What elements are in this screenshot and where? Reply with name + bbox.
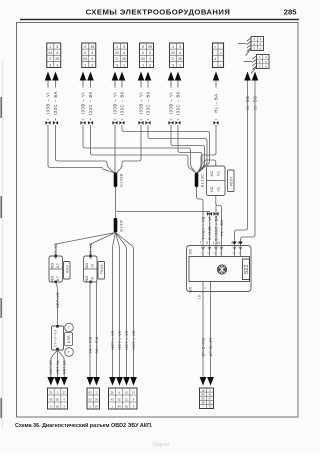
svg-text:27: 27 — [63, 391, 66, 395]
svg-text:A7: A7 — [56, 276, 60, 281]
svg-text:0: 0 — [142, 51, 144, 55]
svg-text:HE7 – VE: HE7 – VE — [110, 330, 115, 350]
svg-text:I33C – BA: I33C – BA — [119, 91, 124, 115]
svg-text:E-I33B – VI: E-I33B – VI — [208, 216, 212, 239]
svg-text:СХЕМЫ ЭЛЕКТРООБОРУДОВАНИЯ: СХЕМЫ ЭЛЕКТРООБОРУДОВАНИЯ — [86, 8, 231, 17]
svg-text:4: 4 — [56, 51, 58, 55]
svg-text:4: 4 — [149, 57, 151, 61]
svg-text:15: 15 — [216, 241, 220, 245]
svg-text:1: 1 — [172, 45, 174, 49]
svg-text:21: 21 — [125, 398, 128, 402]
svg-text:I33C – BA: I33C – BA — [88, 91, 93, 115]
svg-text:ND: ND — [51, 276, 55, 282]
svg-text:1: 1 — [142, 63, 144, 67]
svg-text:ND: ND — [51, 263, 55, 269]
svg-text:Z: Z — [214, 57, 216, 61]
svg-text:4: 4 — [123, 51, 125, 55]
svg-text:CY–IT–CY: CY–IT–CY — [54, 329, 58, 347]
svg-text:T-HE7 – VE: T-HE7 – VE — [201, 216, 205, 240]
svg-text:55: 55 — [56, 398, 59, 402]
svg-text:29: 29 — [90, 45, 94, 49]
svg-text:ND: ND — [85, 263, 89, 269]
svg-text:04: 04 — [141, 57, 145, 61]
svg-text:94: 94 — [118, 405, 121, 409]
svg-text:ND: ND — [85, 276, 89, 282]
svg-text:HE7 – VE: HE7 – VE — [131, 330, 136, 350]
svg-text:AF-I0–JR: AF-I0–JR — [208, 338, 213, 357]
svg-text:43: 43 — [111, 398, 114, 402]
svg-text:1: 1 — [213, 241, 215, 245]
svg-text:2: 2 — [49, 57, 51, 61]
svg-text:3: 3 — [179, 45, 181, 49]
svg-text:0: 0 — [84, 45, 86, 49]
svg-text:ND: ND — [189, 286, 193, 292]
svg-text:A7: A7 — [56, 263, 60, 268]
svg-text:16: 16 — [198, 295, 202, 299]
svg-text:I33B – VI: I33B – VI — [112, 92, 117, 114]
svg-text:S22: S22 — [244, 264, 250, 274]
svg-text:3: 3 — [49, 63, 51, 67]
svg-text:III: III — [91, 277, 95, 281]
svg-text:04: 04 — [83, 57, 87, 61]
svg-text:31: 31 — [49, 391, 52, 395]
svg-text:2: 2 — [149, 63, 151, 67]
svg-text:ND: ND — [210, 171, 214, 177]
svg-text:15: 15 — [125, 391, 128, 395]
svg-text:3A – CM: 3A – CM — [94, 336, 99, 353]
svg-text:E-I33C – BA: E-I33C – BA — [214, 215, 218, 240]
svg-text:1: 1 — [84, 63, 86, 67]
svg-text:I33B – VI: I33B – VI — [138, 92, 143, 114]
svg-text:53: 53 — [89, 398, 92, 402]
svg-text:82: 82 — [56, 405, 59, 409]
svg-text:4: 4 — [91, 57, 93, 61]
svg-text:4: 4 — [237, 241, 239, 245]
svg-text:1: 1 — [179, 63, 181, 67]
svg-text:I33C – BA: I33C – BA — [145, 91, 150, 115]
svg-text:36: 36 — [125, 405, 128, 409]
svg-text:HK7 VA: HK7 VA — [56, 360, 60, 374]
svg-text:24: 24 — [48, 51, 52, 55]
svg-text:BF-B–RG: BF-B–RG — [200, 338, 205, 357]
svg-text:RI07: RI07 — [228, 176, 233, 186]
svg-text:3: 3 — [123, 45, 125, 49]
svg-text:2: 2 — [116, 57, 118, 61]
svg-text:63: 63 — [49, 398, 52, 402]
svg-text:Г: Г — [68, 351, 70, 355]
svg-text:24: 24 — [115, 51, 119, 55]
svg-text:Г: Г — [68, 326, 70, 330]
svg-text:II2: II2 — [217, 171, 221, 176]
svg-text:1: 1 — [49, 45, 51, 49]
svg-text:E5R: E5R — [67, 335, 71, 343]
svg-text:25: 25 — [122, 57, 126, 61]
svg-text:4: 4 — [179, 51, 181, 55]
svg-text:1: 1 — [123, 63, 125, 67]
svg-text:RI03: RI03 — [99, 264, 104, 273]
svg-text:I33B – VI: I33B – VI — [80, 92, 85, 114]
svg-text:36: 36 — [95, 398, 98, 402]
svg-text:E133C: E133C — [199, 174, 204, 188]
svg-text:25: 25 — [178, 57, 182, 61]
svg-text:1: 1 — [116, 45, 118, 49]
svg-text:HE7–VE: HE7–VE — [56, 292, 60, 308]
svg-text:29: 29 — [148, 45, 152, 49]
svg-text:3A – CM: 3A – CM — [87, 336, 92, 353]
svg-text:I33C – BA: I33C – BA — [175, 91, 180, 115]
svg-text:26: 26 — [111, 391, 114, 395]
svg-text:I33C – BA: I33C – BA — [53, 91, 58, 115]
svg-text:2: 2 — [172, 57, 174, 61]
svg-text:HK7 GE: HK7 GE — [63, 360, 67, 374]
svg-text:5: 5 — [231, 241, 233, 245]
svg-text:52: 52 — [118, 398, 121, 402]
svg-text:HE7 – VE: HE7 – VE — [124, 330, 129, 350]
svg-text:HK7 GR: HK7 GR — [49, 360, 53, 374]
svg-text:0: 0 — [84, 51, 86, 55]
svg-text:25: 25 — [55, 57, 59, 61]
svg-text:RI0I: RI0I — [64, 265, 69, 273]
svg-text:07: 07 — [132, 391, 135, 395]
svg-text:III: III — [91, 264, 95, 268]
svg-text:05: 05 — [89, 391, 92, 395]
svg-text:3: 3 — [116, 63, 118, 67]
svg-text:II2: II2 — [217, 187, 221, 192]
svg-text:24: 24 — [95, 405, 98, 409]
svg-text:I33B – VI: I33B – VI — [45, 92, 50, 114]
svg-text:HE7 – VE: HE7 – VE — [117, 330, 122, 350]
svg-text:3: 3 — [91, 51, 93, 55]
svg-text:T: T — [200, 241, 202, 245]
svg-text:0: 0 — [142, 45, 144, 49]
svg-text:3: 3 — [56, 45, 58, 49]
svg-text:E133B: E133B — [118, 173, 123, 187]
svg-text:I33B – VI: I33B – VI — [168, 92, 173, 114]
svg-text:HL – BA: HL – BA — [213, 93, 218, 112]
svg-text:5: 5 — [206, 241, 208, 245]
svg-text:285: 285 — [284, 8, 298, 17]
svg-text:HL – BA: HL – BA — [220, 220, 224, 237]
svg-text:ND: ND — [210, 186, 214, 192]
svg-text:24: 24 — [171, 51, 175, 55]
svg-text:ND: ND — [189, 248, 193, 254]
svg-text:2: 2 — [91, 63, 93, 67]
svg-text:Схема 36. Диагностический разъ: Схема 36. Диагностический разъем OBD2 ЭБ… — [15, 422, 153, 429]
svg-text:Oxp.ru: Oxp.ru — [153, 442, 169, 448]
svg-text:3: 3 — [172, 63, 174, 67]
svg-text:1: 1 — [56, 63, 58, 67]
svg-text:E14IF: E14IF — [118, 219, 123, 231]
svg-text:3: 3 — [149, 51, 151, 55]
